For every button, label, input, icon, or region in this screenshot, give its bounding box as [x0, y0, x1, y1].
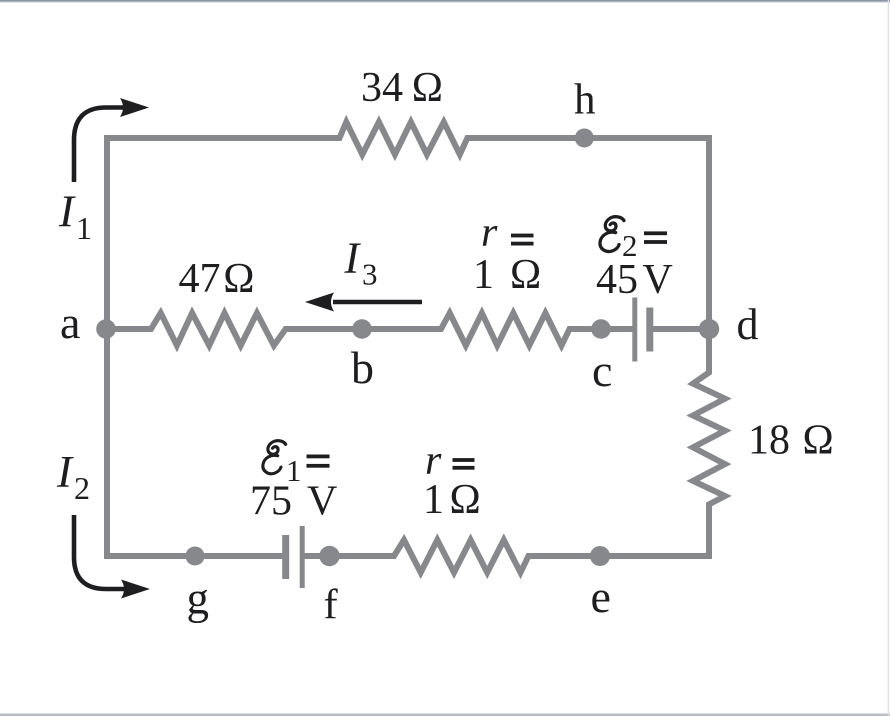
wire: top right segment through node h [467, 135, 712, 141]
resistor 34 ohm [336, 122, 471, 155]
svg-text:1: 1 [473, 252, 494, 298]
svg-text:3: 3 [362, 257, 378, 292]
svg-text:V: V [643, 257, 673, 303]
current arrow I2 [74, 515, 150, 599]
label emf E1 script glyph [262, 441, 286, 474]
svg-text:18: 18 [748, 418, 790, 464]
svg-text:Ω: Ω [223, 256, 254, 302]
wire: right vertical top segment (h corner to 18 ohm) [706, 135, 712, 373]
wire: left vertical a-branch [104, 135, 110, 559]
battery E1: long plate [300, 526, 305, 588]
svg-text:a: a [60, 297, 80, 348]
svg-text:Ω: Ω [450, 477, 481, 523]
svg-text:34: 34 [361, 65, 403, 111]
svg-text:c: c [592, 345, 612, 396]
svg-text:r: r [481, 210, 498, 256]
resistor 18 ohm [693, 369, 725, 508]
svg-text:Ω: Ω [510, 252, 541, 298]
svg-text:f: f [324, 581, 339, 628]
svg-text:47: 47 [179, 256, 221, 302]
svg-text:I: I [56, 447, 74, 497]
svg-text:75: 75 [250, 479, 292, 525]
resistor r internal 1 ohm (middle) [437, 313, 573, 346]
svg-text:Ω: Ω [412, 65, 443, 111]
wire: middle segment 47 ohm to r through node b [286, 326, 441, 332]
wire: bottom right segment through node e [529, 553, 713, 559]
svg-text:h: h [574, 77, 596, 124]
svg-text:I: I [58, 187, 76, 237]
wire: bottom segment battery E1 to r through node f [303, 553, 394, 559]
node h [575, 129, 594, 148]
svg-text:e: e [591, 571, 611, 622]
battery E2: long plate [632, 298, 637, 362]
label E1 equals [307, 455, 330, 468]
node c [591, 319, 611, 339]
wire: top left segment [104, 135, 340, 141]
battery E1: short plate [282, 535, 289, 579]
svg-text:2: 2 [74, 470, 90, 506]
wire: middle segment battery E2 to node d [649, 326, 709, 332]
wire: bottom left segment through node g [104, 553, 283, 559]
wire: right vertical bottom segment (18 ohm to corner e-d) [706, 504, 712, 559]
current arrow I3 [305, 293, 422, 312]
svg-text:I: I [344, 234, 362, 283]
svg-text:Ω: Ω [803, 418, 834, 464]
battery E2: short plate [646, 308, 653, 352]
wire: middle segment a to 47 ohm [104, 326, 151, 332]
label E2 equals [644, 231, 667, 244]
node g [186, 547, 205, 566]
node e [590, 546, 610, 566]
node a [96, 319, 116, 339]
node d [699, 319, 719, 339]
svg-text:45: 45 [596, 257, 638, 303]
svg-text:V: V [307, 479, 337, 525]
label emf E2 script glyph [599, 217, 624, 252]
svg-text:g: g [187, 574, 210, 624]
resistor r internal 1 ohm (bottom) [390, 540, 532, 573]
svg-text:1: 1 [76, 210, 92, 246]
current arrow I1 [74, 98, 149, 182]
svg-text:d: d [737, 300, 759, 349]
svg-text:1: 1 [423, 477, 444, 523]
resistor 47 ohm [147, 313, 289, 346]
svg-text:b: b [351, 342, 374, 393]
node f [319, 546, 339, 566]
wire: middle segment r to battery E2 through node c [570, 326, 634, 332]
node b [352, 319, 372, 339]
